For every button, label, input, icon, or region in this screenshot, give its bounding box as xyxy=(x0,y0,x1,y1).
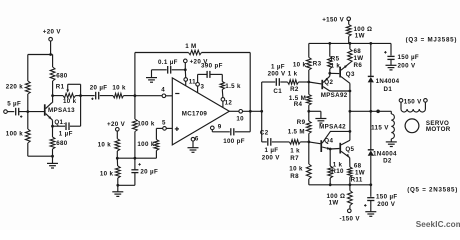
svg-text:R7: R7 xyxy=(290,155,299,162)
svg-text:1N4004: 1N4004 xyxy=(376,78,400,85)
svg-text:10: 10 xyxy=(236,116,244,123)
pin 5 xyxy=(156,119,172,130)
svg-text:R1: R1 xyxy=(56,84,65,91)
svg-text:1 M: 1 M xyxy=(185,43,196,50)
svg-text:Q2: Q2 xyxy=(324,79,333,86)
wire Q3 base xyxy=(330,72,340,74)
svg-text:Q4: Q4 xyxy=(324,137,333,144)
transistor Q1 MPSA13 xyxy=(44,103,75,126)
svg-text:MPSA13: MPSA13 xyxy=(48,107,75,114)
capacitor C1 1uF 200V xyxy=(262,64,288,96)
resistor 100k (non-inverting leg) xyxy=(135,128,159,158)
wire Q4 emitter to Q5 base xyxy=(330,148,339,151)
svg-text:1W: 1W xyxy=(355,32,365,39)
wire Q2 collector to Q3 emitter xyxy=(330,90,352,93)
pin 10 output xyxy=(236,110,261,123)
resistor 100k (left) xyxy=(6,112,30,143)
svg-text:11: 11 xyxy=(189,78,196,85)
svg-text:R4: R4 xyxy=(294,101,303,108)
svg-text:R8: R8 xyxy=(290,173,299,180)
svg-text:1N4004: 1N4004 xyxy=(373,150,397,157)
diode D2 1N4004 xyxy=(368,111,397,185)
svg-text:6: 6 xyxy=(195,136,199,143)
svg-text:100 k: 100 k xyxy=(137,120,154,127)
capacitor 150uF 200V (bottom) xyxy=(364,185,398,212)
svg-text:1W: 1W xyxy=(329,199,339,206)
node +150V supply xyxy=(322,17,350,25)
transistor Q2 MPSA92 xyxy=(321,73,348,99)
wire op-amp output xyxy=(229,110,239,112)
resistor R7 1k xyxy=(289,140,309,162)
svg-text:12: 12 xyxy=(225,100,233,107)
svg-text:10 k: 10 k xyxy=(98,142,112,149)
svg-text:20 µF: 20 µF xyxy=(140,168,158,175)
potentiometer R1 10k xyxy=(53,84,81,105)
node 150V field supply xyxy=(399,98,427,105)
node +20V supply (op-amp) xyxy=(184,58,209,77)
transistor Q4 MPSA42 xyxy=(319,123,350,152)
pin 12 xyxy=(221,98,232,108)
svg-text:680: 680 xyxy=(56,140,68,147)
resistor R8 10k xyxy=(289,142,311,185)
junction output/coupling xyxy=(260,110,263,113)
resistor R9 1.5M xyxy=(288,111,312,142)
svg-text:MOTOR: MOTOR xyxy=(426,126,451,133)
svg-text:D2: D2 xyxy=(383,158,392,165)
svg-text:R2: R2 xyxy=(290,86,299,93)
pin 6 xyxy=(191,136,199,143)
input terminal xyxy=(4,110,15,114)
svg-text:(Q3 = MJ3585): (Q3 = MJ3585) xyxy=(406,36,458,43)
svg-text:5 µF: 5 µF xyxy=(7,101,21,108)
svg-text:Q3: Q3 xyxy=(346,71,355,78)
capacitor 390pF compensation xyxy=(198,63,223,83)
junction R4/R9 node xyxy=(307,110,310,113)
ground (base chain) xyxy=(309,111,327,123)
resistor 100ohm 1W (top) xyxy=(346,24,372,43)
svg-text:1 k: 1 k xyxy=(331,62,341,69)
wire Q1 collector xyxy=(51,96,54,103)
svg-text:680: 680 xyxy=(56,73,68,80)
pin 4 xyxy=(161,86,172,97)
junction R9/R7 node xyxy=(308,141,311,144)
svg-text:Q1.: Q1. xyxy=(54,119,65,126)
wire output line xyxy=(350,110,391,114)
svg-text:1 µF: 1 µF xyxy=(59,131,73,138)
junction input node xyxy=(26,110,29,113)
wire bottom rail xyxy=(309,183,372,186)
svg-text:1 k: 1 k xyxy=(290,147,300,154)
junction R5/Q2/Q3 node xyxy=(328,72,331,75)
resistor 10k coupling xyxy=(112,84,133,98)
wire 1uF up to pot node xyxy=(80,96,82,127)
svg-text:200 V: 200 V xyxy=(262,155,280,162)
svg-text:1.5 k: 1.5 k xyxy=(225,83,241,90)
motor field winding xyxy=(401,102,425,112)
svg-text:+20 V: +20 V xyxy=(107,121,126,128)
svg-text:D1: D1 xyxy=(384,86,393,93)
ground (left stage) xyxy=(47,156,58,168)
junction bias node xyxy=(116,157,135,160)
junction pot output node xyxy=(79,94,82,97)
resistor 680 (emitter) xyxy=(50,126,68,156)
junction bias ground node xyxy=(116,184,119,187)
svg-text:MC1709: MC1709 xyxy=(182,110,208,117)
text Q5 note xyxy=(407,187,458,194)
wire Q4 base xyxy=(309,142,321,144)
junction emitter ground node xyxy=(51,155,54,158)
junction output tee xyxy=(349,110,352,113)
svg-text:150 V: 150 V xyxy=(404,98,422,105)
resistor 1.5k compensation xyxy=(220,82,241,98)
capacitor 1uF emitter xyxy=(53,122,81,137)
wire coupling vertical xyxy=(261,82,263,142)
resistor 220k xyxy=(6,81,30,94)
capacitor 150uF 200V (top) xyxy=(384,43,419,69)
svg-text:+20 V: +20 V xyxy=(43,29,62,36)
ground (150uF top) xyxy=(386,65,397,70)
wire Q2 base xyxy=(309,82,322,84)
svg-text:R11: R11 xyxy=(351,177,363,184)
capacitor 20uF coupling xyxy=(81,84,113,100)
wire top-left rail xyxy=(28,53,53,56)
wire output column upper xyxy=(349,83,351,140)
pin 9 xyxy=(211,123,222,130)
svg-text:MPSA42: MPSA42 xyxy=(319,123,346,130)
text watermark xyxy=(416,220,460,229)
svg-text:3: 3 xyxy=(201,83,205,90)
svg-text:MPSA92: MPSA92 xyxy=(321,92,348,99)
svg-text:10 k: 10 k xyxy=(63,98,77,105)
svg-text:1 k: 1 k xyxy=(288,70,298,77)
node -150V supply xyxy=(340,209,361,223)
svg-text:150 µF: 150 µF xyxy=(398,54,420,61)
capacitor 100pF xyxy=(212,128,250,145)
svg-text:68: 68 xyxy=(354,48,362,55)
ground (armature) xyxy=(386,142,397,147)
node +20V supply (bias) xyxy=(107,121,126,139)
resistor R6 68 1W xyxy=(348,43,364,68)
pin 11 xyxy=(184,78,196,86)
svg-text:+150 V: +150 V xyxy=(322,17,344,24)
resistor R11 68 1W xyxy=(348,158,365,185)
ground (pin 6) xyxy=(188,141,199,152)
svg-text:SeekIC.com: SeekIC.com xyxy=(416,220,460,229)
resistor 10k bias upper xyxy=(98,139,120,159)
pin 3 xyxy=(196,83,205,93)
wire 220k to input node xyxy=(27,94,29,112)
svg-text:(Q5 = 2N3585): (Q5 = 2N3585) xyxy=(407,187,458,194)
resistor 680 (collector) xyxy=(50,55,68,96)
svg-text:1 µF: 1 µF xyxy=(265,147,279,154)
wire feedback vertical xyxy=(135,53,250,132)
junction emitter node xyxy=(51,125,54,128)
svg-text:68: 68 xyxy=(354,162,362,169)
svg-text:C1: C1 xyxy=(273,88,282,95)
text Q3 note xyxy=(406,36,458,43)
transistor Q5 xyxy=(339,140,354,157)
servo motor symbol xyxy=(405,119,451,133)
transistor Q3 xyxy=(339,63,355,84)
junction R3/R2 node xyxy=(307,81,310,84)
resistor R2 1k xyxy=(288,70,309,93)
diode D1 1N4004 xyxy=(368,76,400,111)
wire 100k to bottom xyxy=(28,143,53,156)
svg-text:Q5: Q5 xyxy=(345,146,354,153)
node +20V supply (left stage) xyxy=(43,29,62,55)
svg-text:10 k: 10 k xyxy=(289,166,303,173)
svg-text:0.1 µF: 0.1 µF xyxy=(158,59,178,66)
svg-text:220 k: 220 k xyxy=(6,83,23,90)
svg-text:R10: R10 xyxy=(331,168,344,175)
wire +150V rail xyxy=(309,42,391,45)
svg-text:R6: R6 xyxy=(354,62,363,69)
resistor R3 10k xyxy=(293,43,322,82)
resistor R5 1k xyxy=(328,43,341,73)
resistor R4 1.5M xyxy=(289,82,311,111)
resistor R10 1k xyxy=(328,149,344,185)
svg-text:20 µF: 20 µF xyxy=(90,84,108,91)
svg-text:5: 5 xyxy=(162,119,166,126)
op-amp U1 MC1709 xyxy=(172,78,229,145)
capacitor 5uF input xyxy=(7,101,44,118)
svg-text:100 pF: 100 pF xyxy=(223,138,245,145)
svg-text:1.5 M: 1.5 M xyxy=(288,128,305,135)
svg-text:4: 4 xyxy=(161,86,165,93)
wire Q1 emitter xyxy=(52,119,53,126)
resistor 10k bias lower xyxy=(100,158,120,185)
svg-text:-150 V: -150 V xyxy=(340,216,361,223)
svg-text:200 V: 200 V xyxy=(268,70,286,77)
junction output/feedback xyxy=(249,110,252,113)
svg-text:150 µF: 150 µF xyxy=(376,194,398,201)
svg-text:10 k: 10 k xyxy=(112,84,126,91)
junction Q4/Q5 collector node xyxy=(349,130,352,133)
svg-text:390 pF: 390 pF xyxy=(201,63,223,70)
svg-text:10 k: 10 k xyxy=(100,171,114,178)
wire 220k top xyxy=(27,55,29,82)
svg-text:100 k: 100 k xyxy=(137,141,154,148)
svg-text:200 V: 200 V xyxy=(377,201,395,208)
motor armature winding 115V xyxy=(371,111,394,142)
capacitor 20uF bias xyxy=(118,157,158,186)
svg-text:9: 9 xyxy=(218,123,222,130)
resistor 1M feedback xyxy=(135,43,250,55)
junction collector node xyxy=(51,94,54,97)
svg-text:115 V: 115 V xyxy=(371,124,389,131)
ground (150uF bottom) xyxy=(365,212,376,217)
junction Q4 emitter node xyxy=(329,148,332,151)
svg-text:R3: R3 xyxy=(313,61,322,68)
svg-text:10 k: 10 k xyxy=(293,62,307,69)
ground (bias network) xyxy=(112,185,123,196)
svg-text:R9: R9 xyxy=(297,119,306,126)
ground (0.1uF) xyxy=(146,70,157,82)
resistor 100ohm 1W (bottom) xyxy=(327,185,353,209)
wire D1 from rail xyxy=(370,43,372,76)
svg-text:C2: C2 xyxy=(260,130,269,137)
resistor 100k (inverting leg) xyxy=(133,96,155,159)
wire pin 4 input xyxy=(134,94,163,97)
capacitor 0.1uF decoupling xyxy=(152,59,186,74)
svg-text:100 k: 100 k xyxy=(6,131,23,138)
capacitor C2 1uF 200V xyxy=(260,130,289,162)
svg-text:200 V: 200 V xyxy=(398,62,416,69)
